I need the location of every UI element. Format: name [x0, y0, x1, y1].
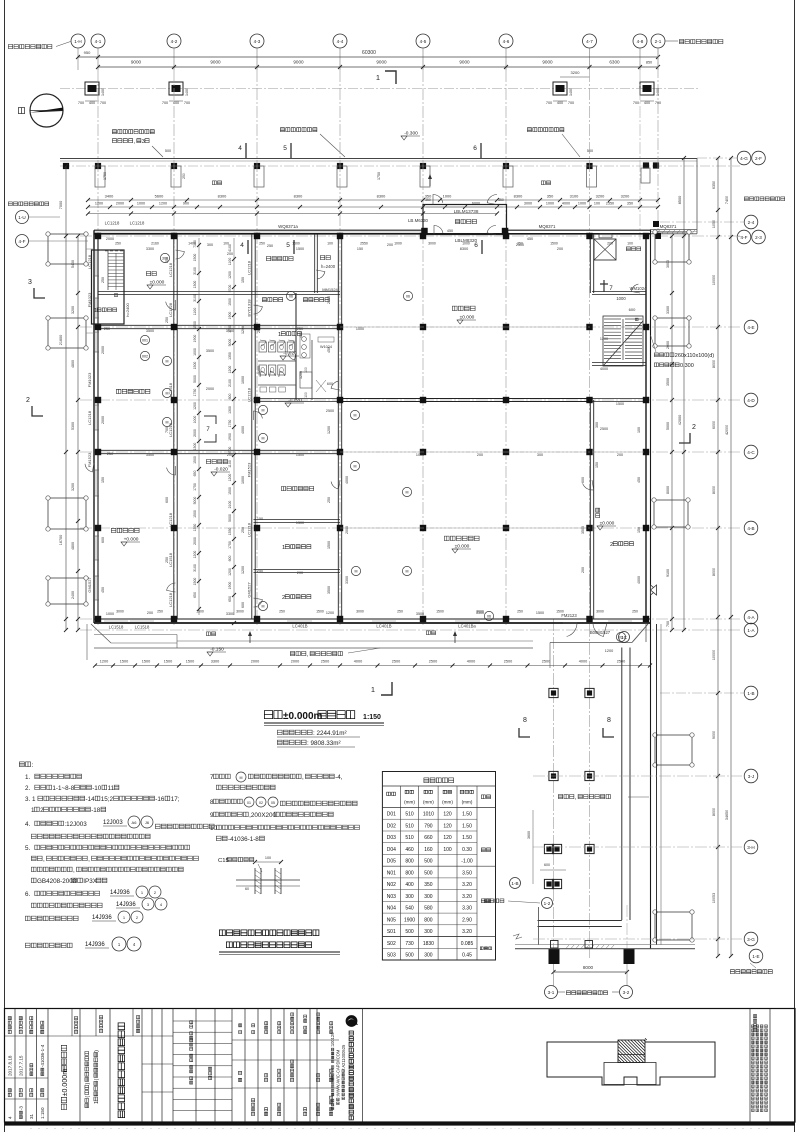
svg-text:(mm): (mm) [423, 800, 434, 805]
zone3 top wall [515, 948, 695, 950]
svg-text:1000: 1000 [193, 348, 197, 356]
svg-text:60300: 60300 [362, 50, 376, 56]
svg-text:8000: 8000 [583, 965, 594, 970]
svg-text:-0.150: -0.150 [210, 647, 224, 653]
svg-text:4: 4 [238, 145, 242, 152]
svg-text:1:150: 1:150 [40, 1107, 45, 1119]
svg-text:1500: 1500 [193, 362, 197, 370]
svg-text:1350: 1350 [228, 528, 232, 536]
svg-text:1100: 1100 [228, 258, 232, 266]
svg-text:2000: 2000 [101, 346, 105, 354]
svg-text:-0.020: -0.020 [283, 351, 297, 357]
svg-text:3500: 3500 [581, 526, 585, 534]
svg-text:LC1218: LC1218 [87, 254, 92, 269]
svg-text:FM1023: FM1023 [87, 292, 92, 307]
svg-text:2550: 2550 [360, 242, 368, 246]
walkway gridlines h [533, 775, 742, 777]
svg-text:4000: 4000 [579, 660, 587, 664]
svg-text:-10: -10 [92, 785, 102, 792]
svg-text:1200: 1200 [95, 202, 103, 206]
svg-text:1: 1 [371, 685, 375, 694]
svg-text:120: 120 [443, 835, 452, 841]
svg-text:660: 660 [424, 835, 433, 841]
bottom dim chains [95, 665, 650, 667]
svg-text:1200: 1200 [600, 337, 608, 341]
svg-text:1C: 1C [621, 635, 628, 640]
svg-text:B00M1527: B00M1527 [590, 630, 611, 635]
svg-text:M: M [262, 409, 265, 413]
svg-text:250: 250 [104, 327, 110, 331]
svg-text:1000: 1000 [137, 202, 145, 206]
svg-text:650: 650 [193, 592, 197, 598]
svg-text:510: 510 [405, 835, 414, 841]
svg-text:200: 200 [581, 567, 585, 573]
svg-text:3.30: 3.30 [462, 906, 472, 912]
svg-text:850: 850 [646, 61, 652, 65]
svg-text:2100: 2100 [228, 379, 232, 387]
svg-text:300: 300 [595, 422, 599, 428]
svg-text:1:150: 1:150 [363, 714, 381, 721]
svg-text:2: 2 [282, 595, 285, 601]
svg-text:1400: 1400 [188, 242, 196, 246]
svg-text:2500: 2500 [321, 660, 329, 664]
svg-text:1000: 1000 [241, 476, 245, 484]
vertical grid lines [97, 70, 99, 625]
svg-text:6300: 6300 [609, 60, 620, 65]
svg-text:200: 200 [477, 453, 483, 457]
svg-text:4-8: 4-8 [637, 39, 644, 44]
svg-text:600: 600 [228, 556, 232, 562]
area notes [277, 730, 282, 735]
svg-text:600: 600 [629, 307, 636, 312]
svg-text:250: 250 [267, 244, 273, 248]
svg-text:250: 250 [397, 610, 403, 614]
svg-text:06: 06 [406, 295, 410, 299]
svg-text:LC1218: LC1218 [247, 387, 252, 402]
svg-text:250: 250 [279, 610, 285, 614]
svg-text:2000: 2000 [193, 537, 197, 545]
svg-text:4000: 4000 [467, 660, 475, 664]
svg-text:1: 1 [282, 545, 285, 551]
svg-text:(mm): (mm) [404, 800, 415, 805]
svg-text:10000: 10000 [712, 275, 716, 285]
svg-text:250: 250 [165, 257, 169, 263]
svg-text:1500: 1500 [193, 510, 197, 518]
svg-text:3.20: 3.20 [462, 882, 472, 888]
svg-text:01: 01 [247, 801, 251, 805]
svg-text:14J936: 14J936 [85, 942, 105, 948]
svg-text:2: 2 [692, 424, 696, 431]
svg-text:4-E: 4-E [747, 325, 754, 330]
svg-text:350: 350 [425, 198, 431, 202]
svg-text:700: 700 [666, 621, 670, 627]
stair 1 [92, 250, 125, 324]
svg-text:700: 700 [162, 101, 168, 105]
svg-text:2000: 2000 [345, 526, 349, 534]
svg-text:450: 450 [299, 332, 303, 338]
svg-text:1200: 1200 [228, 474, 232, 482]
svg-text:2500: 2500 [504, 660, 512, 664]
svg-text:6.: 6. [25, 891, 31, 898]
svg-text:200: 200 [227, 252, 233, 256]
svg-text:2500: 2500 [326, 409, 334, 413]
svg-text:2000: 2000 [251, 660, 259, 664]
svg-text:LC1218: LC1218 [87, 410, 92, 425]
svg-text:4000: 4000 [637, 576, 641, 584]
svg-text:150: 150 [241, 277, 245, 283]
svg-text:3: 3 [142, 139, 145, 145]
svg-text:4-D: 4-D [747, 398, 755, 403]
svg-text:3300: 3300 [211, 660, 219, 664]
svg-text:160: 160 [424, 847, 433, 853]
equipment pads left [48, 234, 86, 264]
svg-text:250: 250 [327, 497, 331, 503]
svg-text:8300: 8300 [514, 194, 523, 199]
svg-text:-16: -16 [155, 796, 165, 803]
svg-text:800: 800 [424, 917, 433, 923]
svg-text:1500: 1500 [228, 487, 232, 495]
svg-text:D01: D01 [387, 812, 396, 818]
svg-text:250: 250 [115, 242, 121, 246]
svg-text:3100: 3100 [193, 564, 197, 572]
left dim chain [65, 166, 67, 630]
svg-text:M: M [354, 465, 357, 469]
svg-text:600: 600 [241, 602, 245, 608]
svg-text:34650: 34650 [725, 810, 729, 820]
svg-text:2: 2 [26, 397, 30, 404]
svg-text:05: 05 [271, 801, 275, 805]
svg-text:2550: 2550 [606, 202, 614, 206]
svg-text:3500: 3500 [226, 329, 234, 333]
svg-text:WM1024: WM1024 [630, 286, 647, 291]
svg-text:1500: 1500 [616, 402, 624, 406]
svg-text:2500: 2500 [516, 243, 524, 247]
right near dim chain [671, 236, 673, 630]
svg-text:150: 150 [257, 517, 263, 521]
svg-text:250: 250 [517, 610, 523, 614]
svg-text:0.300: 0.300 [680, 363, 694, 369]
svg-text:1200: 1200 [326, 611, 334, 615]
svg-text:150: 150 [101, 477, 105, 483]
svg-text:N03: N03 [387, 894, 396, 900]
svg-text:2500: 2500 [392, 660, 400, 664]
svg-text:): ) [94, 1050, 100, 1052]
svg-text:(: ( [85, 1096, 91, 1098]
svg-text:-41036-1-8: -41036-1-8 [228, 836, 259, 843]
svg-text:LC1218: LC1218 [168, 512, 173, 527]
svg-text:06: 06 [289, 295, 293, 299]
svg-text:1750: 1750 [228, 541, 232, 549]
svg-text:100: 100 [627, 242, 633, 246]
svg-text:1000: 1000 [616, 296, 626, 301]
svg-text:3100: 3100 [570, 194, 579, 199]
frame right [794, 0, 796, 1132]
corridor wall x253.5 [251, 234, 253, 619]
svg-text:2500: 2500 [429, 660, 437, 664]
svg-text:±0.000: ±0.000 [150, 280, 165, 286]
svg-text:1500: 1500 [193, 254, 197, 262]
svg-text:1900: 1900 [228, 582, 232, 590]
partition x316 [314, 234, 316, 293]
svg-text:350: 350 [498, 198, 504, 202]
svg-text:650: 650 [193, 471, 197, 477]
svg-text:350: 350 [627, 202, 633, 206]
svg-text:3.20: 3.20 [462, 929, 472, 935]
svg-text:250: 250 [182, 173, 186, 179]
svg-text:200: 200 [607, 242, 613, 246]
svg-text:3300: 3300 [666, 306, 670, 314]
svg-text:M: M [262, 605, 265, 609]
svg-text:3-1: 3-1 [548, 990, 555, 995]
svg-text:N04: N04 [387, 906, 396, 912]
notes block [19, 762, 24, 767]
canopy drain labels [112, 130, 116, 134]
svg-text:3000: 3000 [428, 242, 436, 246]
svg-text:12J003: 12J003 [103, 820, 123, 826]
svg-text:14J936: 14J936 [92, 915, 112, 921]
svg-text:400: 400 [644, 101, 650, 105]
svg-text:1400: 1400 [101, 88, 105, 96]
svg-text:WQ8371a: WQ8371a [278, 224, 298, 229]
svg-text:4: 4 [240, 242, 244, 249]
svg-text:3600: 3600 [527, 831, 531, 839]
svg-text:1500: 1500 [536, 611, 544, 615]
svg-text:±0.000m: ±0.000m [283, 711, 323, 722]
svg-text:250: 250 [157, 610, 163, 614]
label zone2 axis top [666, 40, 679, 42]
svg-text:,: , [302, 774, 304, 781]
drainage label walkway [558, 795, 562, 799]
svg-text:5: 5 [283, 145, 287, 152]
svg-text:300: 300 [405, 894, 414, 900]
apron below building [91, 624, 111, 643]
svg-text:1200: 1200 [327, 426, 331, 434]
svg-text:4: 4 [8, 1116, 13, 1119]
svg-text:D05: D05 [387, 859, 396, 865]
svg-text:1200: 1200 [100, 660, 108, 664]
svg-text:100: 100 [594, 202, 600, 206]
svg-text:250: 250 [165, 317, 169, 323]
top dim 60300 [78, 56, 658, 58]
svg-text:3-2: 3-2 [623, 990, 630, 995]
vestibule [423, 205, 507, 235]
svg-text:1: 1 [94, 1101, 100, 1104]
svg-text:1300: 1300 [193, 281, 197, 289]
svg-text:: 9808.33m²: : 9808.33m² [307, 740, 341, 747]
svg-text:5000: 5000 [228, 339, 232, 347]
svg-text:400: 400 [557, 101, 563, 105]
svg-text:650: 650 [228, 596, 232, 602]
svg-text:1500: 1500 [296, 247, 304, 251]
svg-text:2.90: 2.90 [462, 917, 472, 923]
svg-text:4-F: 4-F [741, 235, 748, 240]
svg-text:,200X200: ,200X200 [249, 812, 276, 819]
svg-text:S03: S03 [387, 953, 396, 959]
svg-text:1200: 1200 [228, 366, 232, 374]
svg-text:1000: 1000 [241, 376, 245, 384]
svg-text:3100: 3100 [193, 294, 197, 302]
svg-text:4-2: 4-2 [171, 39, 178, 44]
frame left [4, 0, 6, 1132]
svg-text:N02: N02 [387, 882, 396, 888]
svg-text:4-B: 4-B [747, 526, 754, 531]
svg-text:1200: 1200 [228, 271, 232, 279]
main building top wall [94, 233, 651, 235]
svg-text:1500: 1500 [228, 298, 232, 306]
svg-text:1900: 1900 [193, 335, 197, 343]
top axis bubbles [71, 34, 85, 48]
svg-text:950: 950 [84, 50, 91, 55]
svg-text:2000: 2000 [101, 416, 105, 424]
svg-text:1-U: 1-U [18, 215, 25, 220]
svg-text:1000: 1000 [356, 327, 364, 331]
svg-text:002: 002 [142, 355, 148, 359]
svg-text:1350: 1350 [228, 352, 232, 360]
svg-text:8000: 8000 [712, 486, 716, 494]
svg-text:2000: 2000 [327, 296, 331, 304]
svg-text:3300: 3300 [476, 611, 484, 615]
svg-text:8300: 8300 [460, 247, 468, 251]
svg-text:1500: 1500 [120, 660, 128, 664]
svg-text:1200: 1200 [299, 371, 303, 379]
svg-text:200: 200 [557, 247, 563, 251]
svg-text:A6: A6 [132, 820, 138, 825]
equipment pads right [655, 232, 689, 262]
svg-text:M: M [166, 421, 169, 425]
svg-text:6: 6 [473, 145, 477, 152]
svg-text:1-2: 1-2 [544, 901, 551, 906]
svg-text:2500: 2500 [542, 660, 550, 664]
svg-text:3000: 3000 [236, 610, 244, 614]
svg-text:1500: 1500 [292, 242, 300, 246]
svg-text:500: 500 [405, 953, 414, 959]
svg-text:-0.300: -0.300 [404, 131, 418, 137]
partition x340 [337, 234, 339, 619]
svg-text:4800: 4800 [71, 542, 75, 550]
walkway door mark [651, 585, 657, 595]
zone2 label right [744, 197, 748, 201]
svg-text:GM1527: GM1527 [247, 582, 252, 598]
svg-text:MM1524: MM1524 [322, 287, 338, 292]
svg-text:2000: 2000 [291, 660, 299, 664]
svg-text:3500: 3500 [146, 329, 154, 333]
svg-text:,: , [43, 856, 45, 863]
svg-text:1.50: 1.50 [462, 823, 472, 829]
svg-text:1750: 1750 [377, 172, 381, 180]
svg-text:9000: 9000 [131, 60, 142, 65]
window tags [286, 291, 295, 300]
svg-text::12J003: :12J003 [64, 821, 87, 828]
svg-text:700: 700 [165, 427, 169, 433]
svg-text:4-4: 4-4 [337, 39, 344, 44]
corridor wall x175.5 [173, 234, 175, 619]
svg-text:2500: 2500 [617, 660, 625, 664]
title block columns [14, 1009, 16, 1123]
svg-text:2-F: 2-F [755, 156, 762, 161]
svg-text:2-1: 2-1 [655, 39, 662, 44]
svg-text:700: 700 [78, 101, 84, 105]
svg-text:450: 450 [447, 229, 453, 233]
svg-text:3. 1: 3. 1 [25, 796, 36, 803]
svg-text:1900: 1900 [404, 917, 415, 923]
svg-text:1200: 1200 [605, 649, 613, 653]
svg-text:1500: 1500 [196, 610, 204, 614]
svg-text:790: 790 [424, 823, 433, 829]
svg-text:1830: 1830 [423, 941, 434, 947]
svg-text:700: 700 [568, 101, 574, 105]
svg-text:3200: 3200 [71, 483, 75, 491]
svg-text:LC1218: LC1218 [168, 592, 173, 607]
svg-text:9000: 9000 [712, 731, 716, 739]
svg-text:M: M [166, 360, 169, 364]
svg-text:540: 540 [405, 906, 414, 912]
svg-text:16700: 16700 [59, 535, 63, 546]
svg-text:2017.7.15: 2017.7.15 [19, 1055, 24, 1076]
svg-text:1010: 1010 [423, 812, 434, 818]
svg-text:1300: 1300 [228, 406, 232, 414]
stair 2 [603, 316, 643, 366]
svg-text:S01: S01 [387, 929, 396, 935]
svg-text:3300: 3300 [146, 247, 154, 251]
svg-text:150: 150 [595, 462, 599, 468]
svg-text:LC401B: LC401B [376, 624, 391, 629]
svg-text:1000: 1000 [462, 242, 470, 246]
svg-text:(mm): (mm) [442, 800, 453, 805]
svg-text:: 2244.91m²: : 2244.91m² [313, 730, 347, 737]
top dim 9000 row [98, 66, 658, 68]
svg-text:1350: 1350 [193, 524, 197, 532]
svg-text:250: 250 [107, 452, 113, 456]
svg-text:3.20: 3.20 [462, 894, 472, 900]
interior doors [166, 300, 176, 310]
svg-text:LB.M6330: LB.M6330 [408, 218, 429, 223]
svg-text:1500: 1500 [550, 242, 558, 246]
main title [264, 711, 272, 719]
svg-text:510: 510 [405, 823, 414, 829]
svg-text:900: 900 [183, 202, 189, 206]
svg-text:3: 3 [28, 279, 32, 286]
svg-text:): ) [85, 1083, 91, 1085]
horizontal partitions [98, 291, 340, 293]
svg-text:500: 500 [165, 149, 171, 153]
svg-text:700: 700 [546, 101, 552, 105]
svg-text:730: 730 [405, 941, 414, 947]
svg-text:3200: 3200 [596, 194, 605, 199]
svg-text:M: M [166, 392, 169, 396]
svg-text:15;2: 15;2 [101, 796, 114, 803]
svg-text:1200: 1200 [159, 202, 167, 206]
svg-text:300: 300 [207, 243, 213, 247]
svg-text:1500: 1500 [193, 578, 197, 586]
svg-text:100: 100 [637, 427, 641, 433]
svg-text:4-6: 4-6 [503, 39, 510, 44]
svg-text:300: 300 [424, 894, 433, 900]
svg-text:LC1218: LC1218 [247, 260, 252, 275]
corridor dim chains [198, 238, 200, 615]
svg-text::100120: :100120 [330, 1032, 335, 1048]
svg-text:-18: -18 [91, 807, 101, 814]
svg-text:-4,: -4, [335, 774, 343, 781]
svg-text:6: 6 [474, 242, 478, 249]
svg-text:5: 5 [286, 242, 290, 249]
svg-text:-0.020: -0.020 [288, 398, 302, 404]
svg-text:4-5: 4-5 [420, 39, 427, 44]
chimney axis [484, 899, 488, 903]
svg-text::: : [31, 762, 33, 769]
svg-text:21600: 21600 [59, 335, 63, 346]
svg-text:1-H: 1-H [74, 39, 81, 44]
svg-text:350: 350 [547, 194, 554, 199]
